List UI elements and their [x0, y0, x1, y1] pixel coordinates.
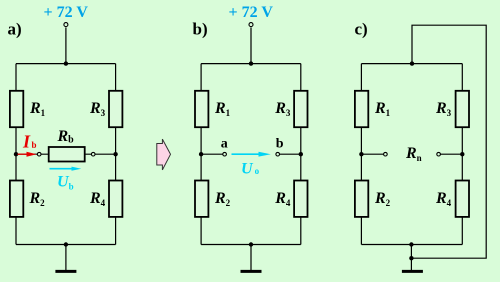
svg-text:a: a [221, 136, 228, 151]
svg-text:+ 72 V: + 72 V [229, 4, 274, 21]
svg-text:b): b) [193, 20, 208, 39]
svg-text:a): a) [8, 20, 22, 39]
svg-text:c): c) [355, 20, 368, 39]
svg-text:b: b [276, 136, 284, 151]
svg-text:+ 72 V: + 72 V [44, 4, 89, 21]
